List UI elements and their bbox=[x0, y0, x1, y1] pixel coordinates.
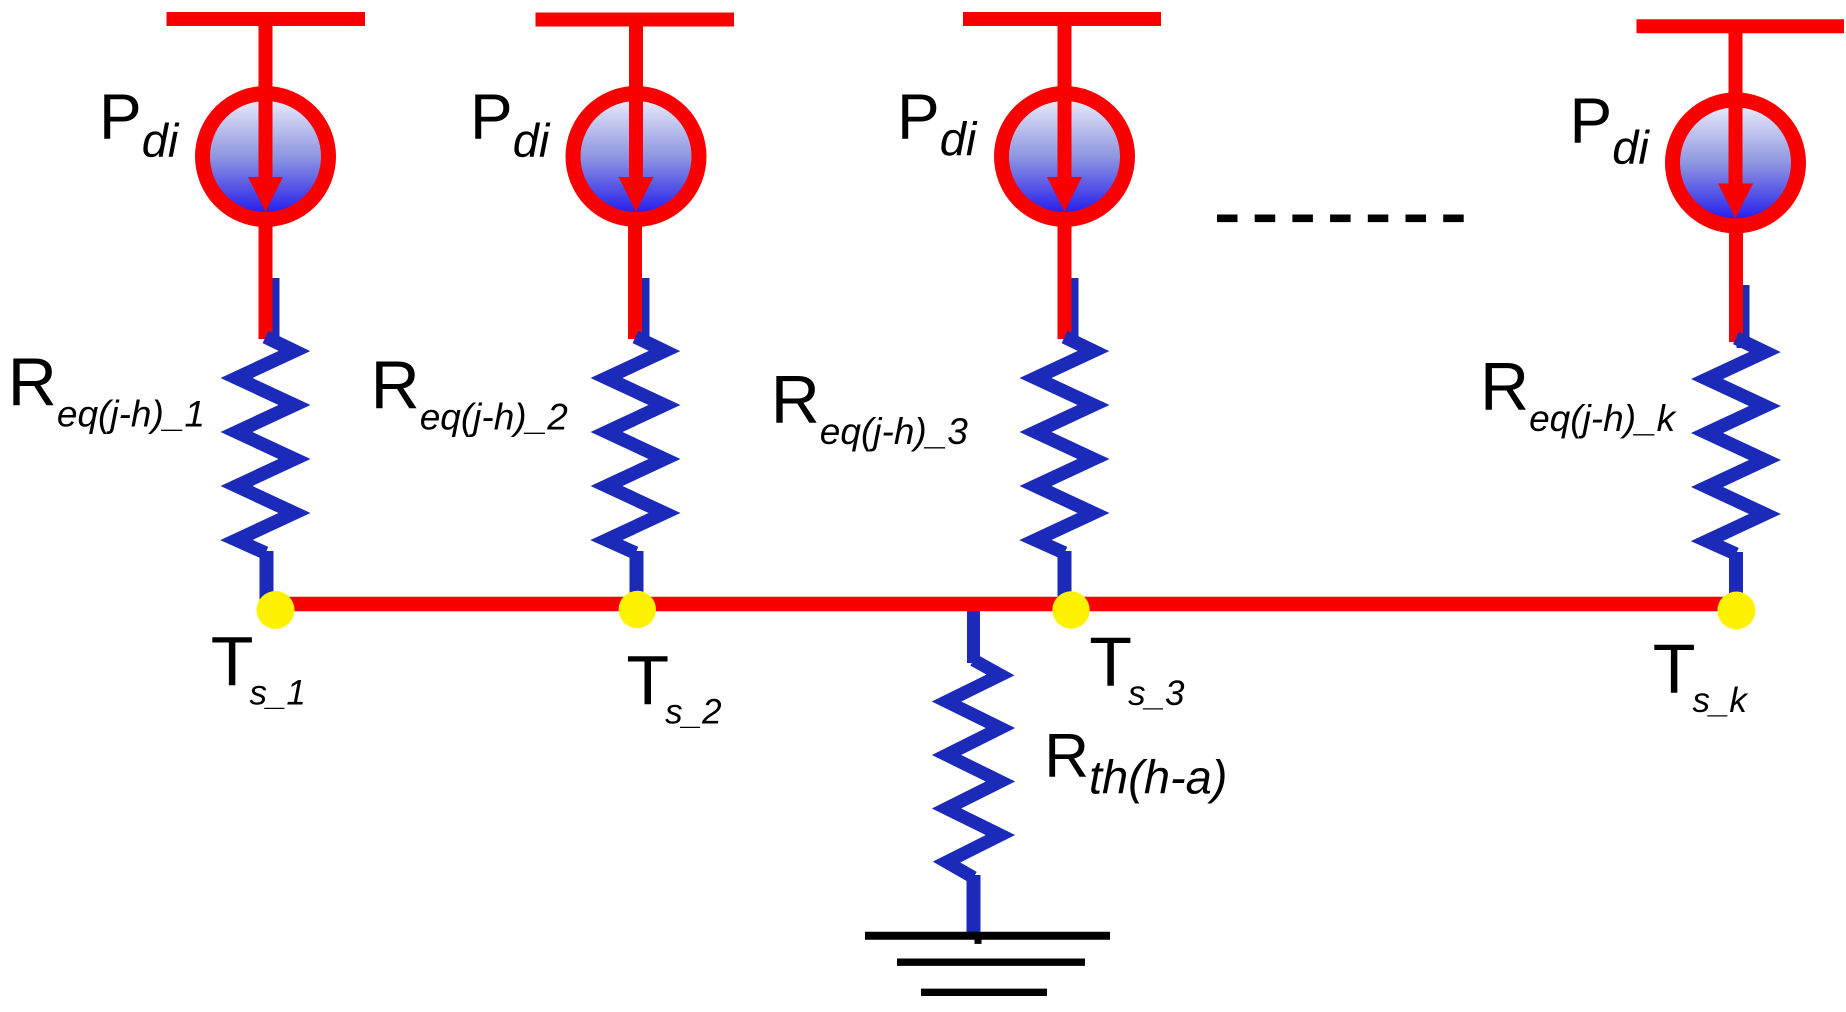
svg-text:Ts_1: Ts_1 bbox=[211, 622, 306, 713]
svg-text:Rth(h-a): Rth(h-a) bbox=[1044, 722, 1227, 803]
node Ts_k bbox=[1717, 592, 1755, 630]
svg-text:Pdi: Pdi bbox=[99, 81, 180, 168]
svg-text:Req(j-h)_1: Req(j-h)_1 bbox=[8, 344, 205, 434]
svg-text:Pdi: Pdi bbox=[1570, 84, 1651, 174]
svg-text:Pdi: Pdi bbox=[897, 80, 978, 165]
current source P_di 3 bbox=[1002, 13, 1128, 220]
wire: lead to node k bbox=[1729, 552, 1743, 600]
wire: red lead below source 1 bbox=[259, 222, 273, 339]
resistor Req(j-h)_3 bbox=[1036, 337, 1094, 553]
wire: lead of Rth to ground bbox=[967, 875, 981, 934]
wire: blue lead sliver branch 1 bbox=[267, 278, 280, 345]
wire: blue lead sliver branch 3 bbox=[1066, 278, 1079, 345]
resistor Req(j-h)_k bbox=[1707, 338, 1765, 554]
node Ts_1 bbox=[257, 591, 295, 629]
node Ts_2 bbox=[619, 591, 656, 628]
wire: blue lead sliver branch 2 bbox=[637, 278, 650, 345]
current source P_di 1 bbox=[203, 13, 329, 220]
wire: lead to node 2 bbox=[630, 551, 644, 600]
svg-text:Req(j-h)_2: Req(j-h)_2 bbox=[371, 348, 569, 438]
svg-text:Pdi: Pdi bbox=[470, 81, 551, 167]
resistor Req(j-h)_1 bbox=[237, 337, 295, 553]
wire: lead to node 3 bbox=[1058, 551, 1072, 600]
svg-text:Req(j-h)_k: Req(j-h)_k bbox=[1480, 349, 1678, 439]
wire: lead to node 1 bbox=[260, 551, 274, 600]
wire: heatsink bus bbox=[276, 597, 1736, 612]
supply bar branch 2 bbox=[536, 13, 735, 27]
supply bar branch 4 bbox=[1637, 19, 1845, 33]
ground bbox=[865, 936, 1110, 993]
wire: red lead below source 3 bbox=[1058, 222, 1072, 339]
wire: blue lead sliver branch 4 bbox=[1737, 285, 1750, 348]
svg-text:Ts_2: Ts_2 bbox=[626, 641, 721, 732]
current source P_di 2 bbox=[573, 13, 699, 220]
supply bar branch 1 bbox=[167, 12, 366, 26]
wire: red lead below source 2 bbox=[628, 222, 642, 339]
resistor Rth(h-a) bbox=[947, 660, 1001, 878]
wire: red lead below source 4 bbox=[1729, 229, 1743, 342]
supply bar branch 3 bbox=[963, 12, 1161, 26]
svg-text:Req(j-h)_3: Req(j-h)_3 bbox=[771, 362, 969, 452]
node Ts_3 bbox=[1052, 591, 1089, 628]
wire: lead of Rth from bus bbox=[967, 600, 980, 663]
current source P_di 4 bbox=[1673, 20, 1799, 226]
dashed continuation line bbox=[1217, 215, 1464, 223]
resistor Req(j-h)_2 bbox=[607, 337, 665, 553]
svg-text:Ts_3: Ts_3 bbox=[1089, 623, 1185, 714]
svg-text:Ts_k: Ts_k bbox=[1653, 630, 1749, 721]
